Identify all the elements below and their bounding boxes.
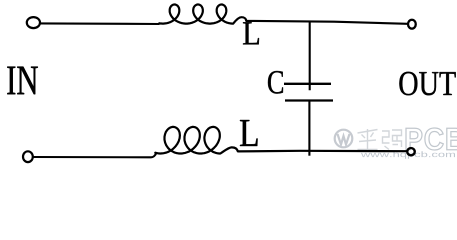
- inductor L (top) coil: [159, 5, 246, 24]
- inductor L (bottom) coil: [155, 127, 238, 154]
- label C of capacitor: [268, 71, 283, 94]
- watermark url www.hqpcb.com: [361, 151, 455, 158]
- watermark character qiang: [382, 130, 402, 150]
- terminal: top-left input port: [27, 17, 40, 28]
- label L of bottom inductor: [240, 120, 258, 146]
- terminal: bottom-right output port: [407, 148, 415, 155]
- label L of top inductor: [243, 22, 259, 44]
- watermark logo circle with W mark: [335, 130, 353, 148]
- terminal: top-right output port: [408, 20, 416, 29]
- capacitor C bottom plate: [285, 99, 333, 101]
- wire: capacitor top lead from top rail junction: [309, 21, 311, 90]
- watermark character hua: [358, 129, 378, 150]
- terminal: bottom-left input port: [23, 151, 33, 162]
- label IN input net: [7, 67, 38, 95]
- wire: top-right horizontal segment: [246, 21, 407, 24]
- wire: capacitor bottom lead crossing to bottom rail: [308, 101, 310, 156]
- wire: top-left horizontal segment: [41, 22, 160, 25]
- label OUT output net: [399, 72, 455, 96]
- wire: bottom-right horizontal segment: [238, 150, 407, 153]
- watermark text PCB: [406, 128, 457, 150]
- capacitor C top plate: [284, 83, 331, 85]
- wire: bottom-left horizontal segment: [33, 153, 157, 157]
